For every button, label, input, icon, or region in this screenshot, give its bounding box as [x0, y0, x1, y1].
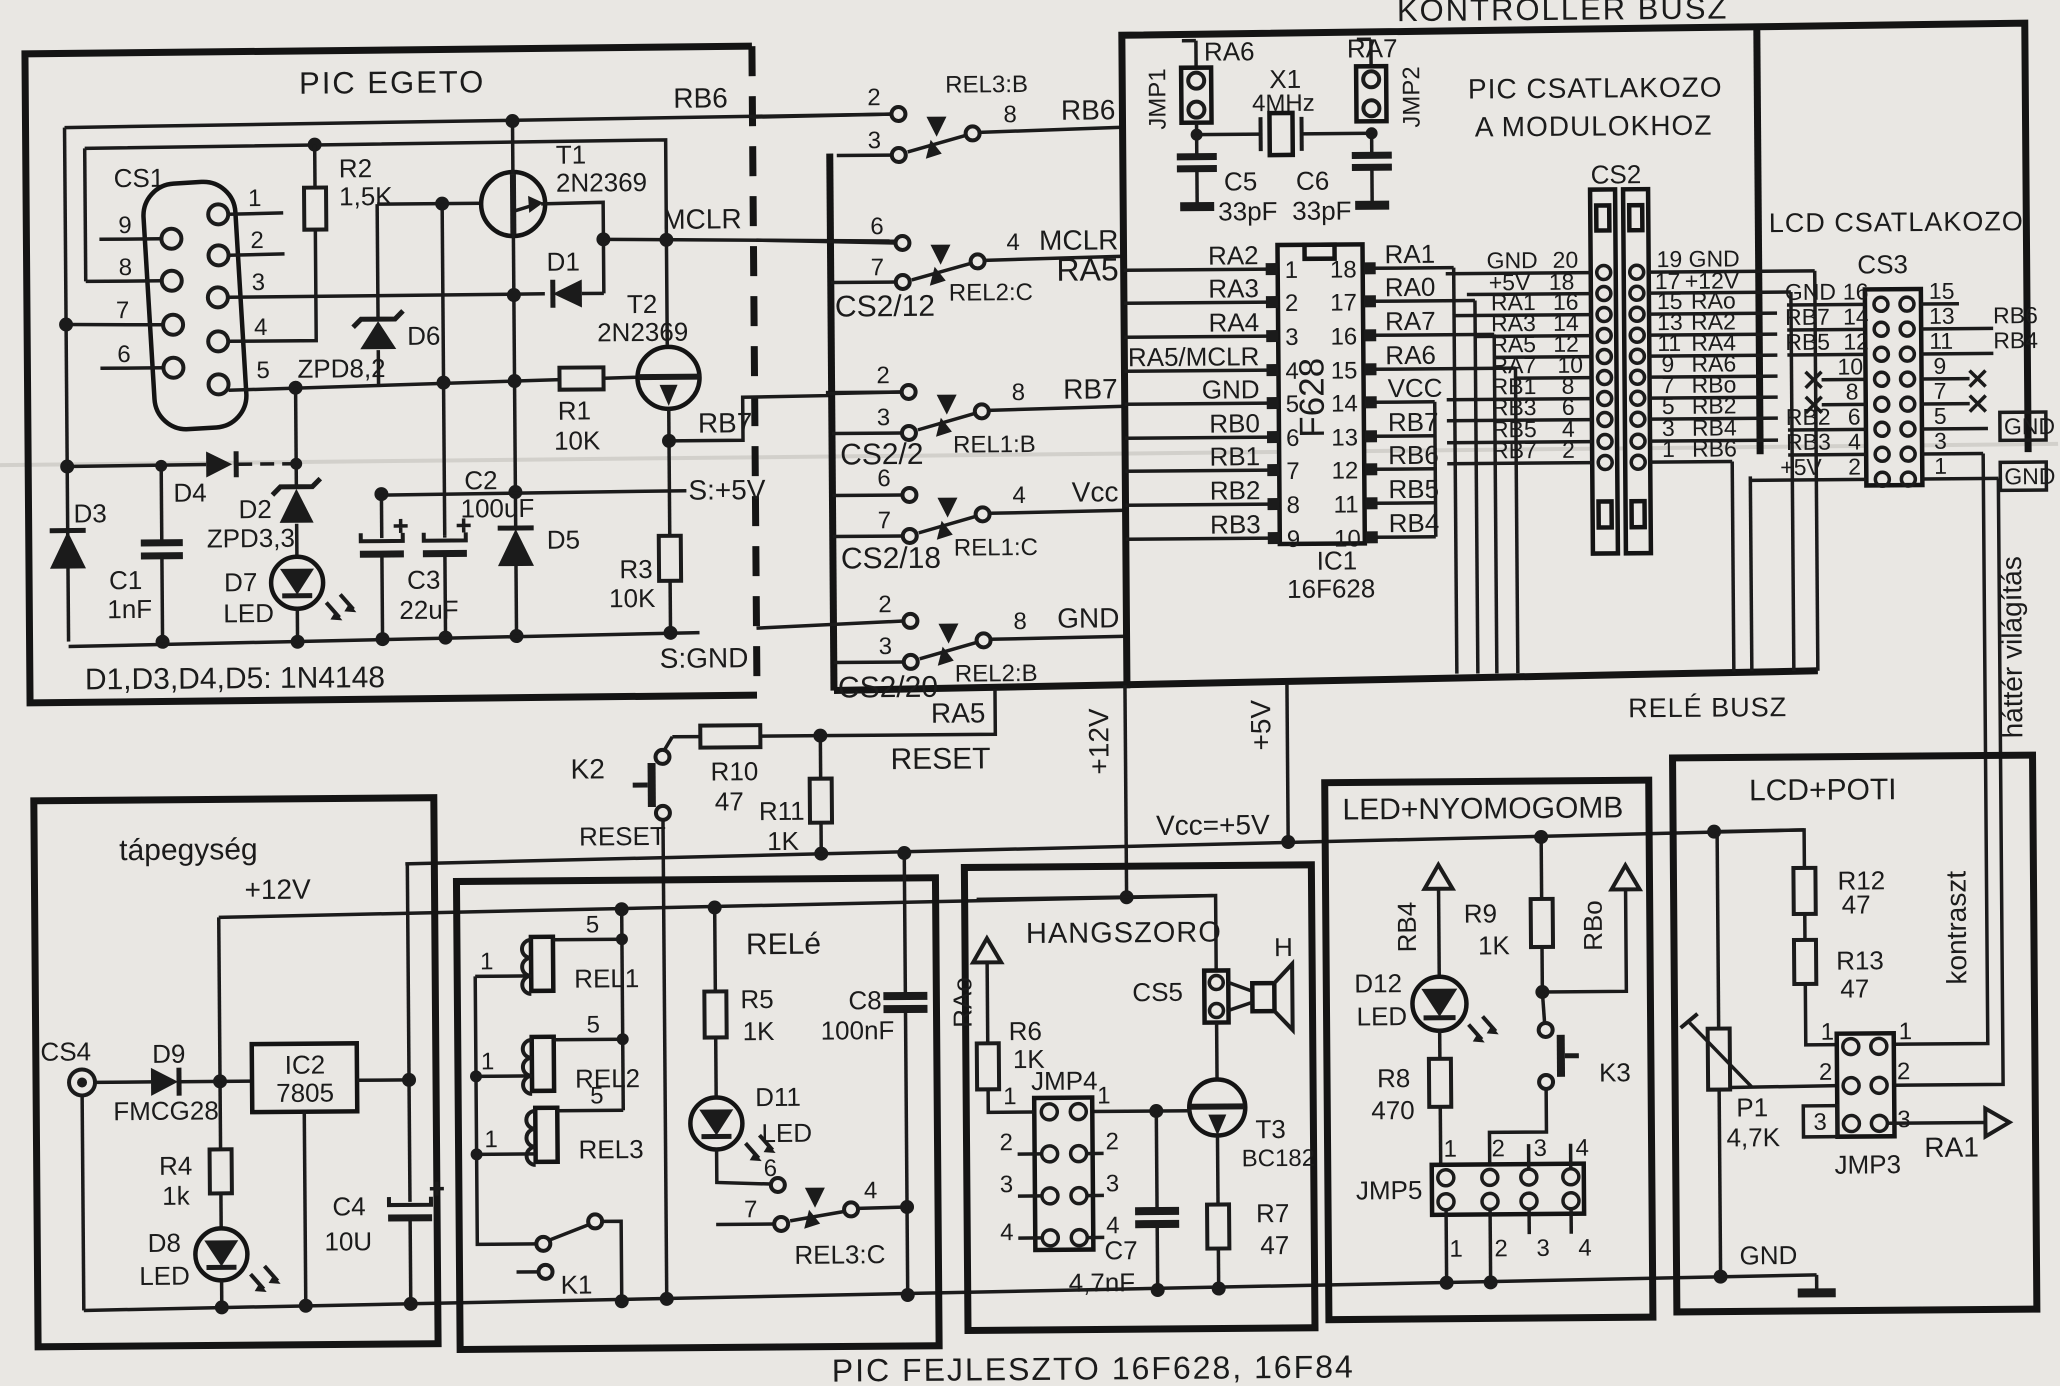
- svg-text:REL3: REL3: [578, 1134, 643, 1165]
- switch REL2:C common 4: [911, 243, 1123, 286]
- switch REL1:C contact 7: [833, 529, 917, 544]
- svg-text:3: 3: [1000, 1171, 1014, 1198]
- svg-text:3: 3: [1285, 324, 1299, 351]
- svg-text:BC182: BC182: [1242, 1145, 1316, 1173]
- IC pin 13 RB7: [1331, 407, 1439, 452]
- capacitor C7: [1134, 1111, 1179, 1297]
- label GND boxed lower: [2000, 462, 2055, 490]
- switch REL2:C contact 7: [831, 275, 910, 290]
- diode D5: [498, 528, 535, 643]
- svg-text:LED: LED: [761, 1118, 812, 1148]
- svg-text:5: 5: [586, 911, 600, 938]
- svg-text:14: 14: [1331, 390, 1358, 417]
- svg-text:LCD CSATLAKOZO: LCD CSATLAKOZO: [1769, 206, 2024, 238]
- label GND boxed upper: [2000, 412, 2055, 440]
- svg-text:1: 1: [1285, 257, 1299, 284]
- svg-text:RA5/MCLR: RA5/MCLR: [1128, 341, 1260, 372]
- svg-text:1,5K: 1,5K: [339, 181, 393, 211]
- svg-text:JMP3: JMP3: [1834, 1149, 1901, 1180]
- transistor T3: [1189, 1079, 1245, 1135]
- svg-text:3: 3: [1106, 1170, 1120, 1197]
- svg-text:8: 8: [1286, 492, 1300, 519]
- svg-text:2: 2: [1848, 453, 1861, 479]
- resistor R13: [1794, 940, 1837, 1045]
- crystal X1: [1190, 112, 1377, 155]
- svg-text:JMP2: JMP2: [1398, 66, 1425, 128]
- switch REL2:C contact 6: [756, 236, 909, 251]
- svg-text:3: 3: [1813, 1109, 1827, 1136]
- CS3 row 2/1: [1750, 452, 1998, 487]
- svg-text:16: 16: [1843, 278, 1869, 304]
- wire 7805 output: [355, 864, 417, 1202]
- svg-text:R3: R3: [619, 554, 652, 584]
- svg-text:1: 1: [1934, 453, 1947, 479]
- wire bus vertical RA1: [1454, 268, 1457, 674]
- wire JMP5 pin2 to gnd: [1483, 1209, 1498, 1289]
- svg-text:10: 10: [1837, 353, 1863, 379]
- connector CS1 pin 8: [162, 271, 182, 291]
- svg-text:8: 8: [1003, 101, 1017, 128]
- svg-text:D2: D2: [238, 494, 271, 524]
- svg-text:47: 47: [1840, 973, 1869, 1003]
- transistor T2: [637, 347, 701, 441]
- svg-text:1: 1: [1443, 1136, 1457, 1163]
- CS2 row 6/5 RB3 RB2: [1447, 392, 1778, 428]
- connector CS5: [1204, 970, 1228, 1022]
- svg-text:10U: 10U: [324, 1226, 372, 1256]
- svg-text:H: H: [1274, 932, 1293, 962]
- capacitor C5: [1177, 135, 1218, 205]
- CS3 row 6/5: [1786, 402, 1988, 437]
- svg-text:RB5: RB5: [1388, 474, 1439, 504]
- node rail entry: [1707, 825, 1721, 839]
- svg-text:12: 12: [1843, 328, 1869, 354]
- wire hatter vilagitas vertical: [1889, 478, 2003, 1085]
- CS2 row 16/15 RA1 RAo: [1454, 287, 1777, 323]
- arrow RA1: [1985, 1108, 2009, 1136]
- fold crease: [0, 444, 2058, 465]
- svg-text:RA5: RA5: [931, 697, 986, 728]
- svg-text:10K: 10K: [609, 583, 656, 613]
- svg-text:RB6: RB6: [673, 82, 728, 113]
- svg-text:R8: R8: [1377, 1063, 1410, 1093]
- wire K2 to GND: [663, 820, 667, 1299]
- CS2 row 2/1 RB7 RB6: [1447, 435, 1737, 470]
- svg-text:GND: GND: [1785, 279, 1836, 305]
- svg-text:2N2369: 2N2369: [556, 167, 647, 198]
- switch K1: [516, 1214, 629, 1309]
- svg-text:D7: D7: [224, 567, 257, 597]
- wire pin9 stub: [99, 237, 161, 241]
- svg-text:R4: R4: [159, 1151, 192, 1181]
- svg-text:RB6: RB6: [1692, 435, 1737, 461]
- svg-text:D4: D4: [173, 477, 206, 507]
- wire GND rail inside PIC EGETO: [69, 633, 700, 647]
- IC pin 8 RB2: [1125, 475, 1300, 520]
- wire pin7 to left: [66, 324, 163, 326]
- IC pin 4 RA5/MCLR: [1124, 341, 1299, 386]
- svg-text:T1: T1: [556, 139, 587, 169]
- switch REL3:B contact 3: [837, 148, 906, 163]
- capacitor C4 electrolytic: [388, 1182, 445, 1311]
- wire RB4 to D12: [1437, 889, 1441, 978]
- svg-text:RB4: RB4: [1993, 327, 2038, 353]
- CS2 row 14/13 RA3 RA2: [1475, 308, 1777, 343]
- svg-text:K2: K2: [570, 753, 604, 784]
- svg-text:5: 5: [586, 1011, 600, 1038]
- svg-text:D11: D11: [755, 1082, 801, 1112]
- svg-text:12: 12: [1331, 457, 1358, 484]
- svg-text:15: 15: [1929, 278, 1955, 304]
- svg-text:8: 8: [1013, 608, 1027, 635]
- svg-text:REL1:B: REL1:B: [953, 431, 1036, 459]
- ground C5: [1180, 202, 1214, 211]
- node MCLR junction: [596, 232, 610, 246]
- resistor R1: [559, 367, 603, 389]
- svg-text:6: 6: [1286, 425, 1300, 452]
- svg-text:RELÉ BUSZ: RELÉ BUSZ: [1628, 692, 1787, 723]
- svg-text:KONTROLLER BUSZ: KONTROLLER BUSZ: [1397, 0, 1729, 28]
- svg-text:2: 2: [1491, 1135, 1505, 1162]
- svg-text:7: 7: [116, 297, 130, 324]
- wire rail 8V2: [377, 202, 483, 206]
- svg-text:2: 2: [999, 1129, 1013, 1156]
- svg-text:K1: K1: [561, 1269, 593, 1299]
- svg-text:1: 1: [484, 1126, 498, 1153]
- svg-text:REL2:B: REL2:B: [955, 660, 1038, 688]
- switch REL1:B contact 2: [828, 385, 916, 400]
- svg-text:ZPD3,3: ZPD3,3: [207, 523, 295, 554]
- svg-text:D1: D1: [546, 247, 579, 277]
- svg-text:6: 6: [877, 465, 891, 492]
- svg-text:3: 3: [1897, 1106, 1911, 1133]
- svg-text:CS2/18: CS2/18: [841, 542, 941, 576]
- svg-text:PIC FEJLESZTO 16F628, 16F84: PIC FEJLESZTO 16F628, 16F84: [832, 1348, 1355, 1386]
- switch REL1:C contact 6: [832, 488, 916, 503]
- svg-text:4,7nF: 4,7nF: [1069, 1267, 1136, 1298]
- wire JMP5 pin1 to gnd: [1439, 1210, 1454, 1290]
- svg-text:2: 2: [876, 362, 890, 389]
- svg-text:háttér világítás: háttér világítás: [1996, 556, 2028, 738]
- switch REL1:C common 4: [918, 496, 1125, 540]
- svg-text:4: 4: [1285, 358, 1299, 385]
- svg-text:4: 4: [1575, 1135, 1589, 1162]
- svg-text:+12V: +12V: [244, 874, 311, 906]
- IC pin 5 GND: [1125, 374, 1300, 419]
- svg-text:4,7K: 4,7K: [1726, 1122, 1780, 1152]
- header JMP3: [1837, 1033, 1895, 1136]
- ground C6: [1355, 201, 1389, 210]
- svg-text:2: 2: [867, 84, 881, 111]
- svg-text:RB7: RB7: [1063, 373, 1118, 404]
- box separator PIC/LCD csatlakozo: [1757, 27, 1760, 454]
- svg-text:RELé: RELé: [746, 928, 821, 962]
- resistor R2: [304, 138, 327, 230]
- svg-text:LCD+POTI: LCD+POTI: [1749, 773, 1897, 807]
- switch REL3:C: [716, 1148, 915, 1232]
- node K2 gnd junction: [660, 1292, 674, 1306]
- IC pin 9 RB3: [1126, 509, 1301, 554]
- svg-text:GND: GND: [2004, 463, 2055, 489]
- wire bus vertical RA7: [1494, 334, 1497, 673]
- svg-text:1: 1: [481, 1048, 495, 1075]
- svg-text:11: 11: [1334, 491, 1359, 518]
- wire RA1 out: [1887, 1121, 1985, 1125]
- svg-text:1k: 1k: [162, 1181, 191, 1211]
- svg-text:+5V: +5V: [1245, 699, 1276, 750]
- wire RA5 from box: [820, 689, 995, 735]
- svg-text:RB1: RB1: [1209, 441, 1260, 471]
- svg-text:1: 1: [1449, 1236, 1463, 1263]
- svg-text:GND: GND: [1202, 374, 1260, 404]
- wire T3 base: [1091, 1104, 1191, 1119]
- wire rail RB6: [64, 114, 893, 128]
- wire GND main rail: [84, 1275, 1817, 1311]
- svg-text:RA0: RA0: [1385, 272, 1436, 302]
- connector CS1 pin 7: [163, 315, 183, 335]
- box PIC EGETO: [25, 46, 757, 703]
- svg-text:33pF: 33pF: [1218, 196, 1277, 226]
- resistor R11: [809, 736, 832, 861]
- capacitor C3 electrolytic: [359, 494, 408, 646]
- IC pin 2 RA3: [1124, 273, 1299, 318]
- svg-text:1K: 1K: [743, 1016, 776, 1046]
- svg-text:R2: R2: [339, 153, 372, 183]
- connector CS1 pin 5: [208, 374, 228, 394]
- svg-text:16: 16: [1330, 323, 1357, 350]
- svg-text:7: 7: [878, 507, 892, 534]
- resistor R5: [704, 900, 728, 1097]
- wire pin5 rail: [229, 377, 641, 390]
- svg-text:3: 3: [877, 404, 891, 431]
- svg-text:Vcc=+5V: Vcc=+5V: [1156, 809, 1270, 841]
- IC pin 1 RA2: [1123, 240, 1298, 285]
- svg-text:D12: D12: [1354, 968, 1402, 998]
- relay coil REL3: [470, 1107, 623, 1165]
- svg-text:RA6: RA6: [1204, 36, 1255, 66]
- box HANGSZORO: [964, 865, 1315, 1331]
- switch REL3:B contact 2: [752, 107, 905, 122]
- svg-text:2: 2: [878, 591, 892, 618]
- svg-text:1K: 1K: [767, 826, 800, 856]
- svg-text:VCC: VCC: [1387, 373, 1442, 403]
- jumper JMP1: [1181, 41, 1212, 123]
- wire rele coil +12V chain: [615, 902, 631, 1110]
- svg-text:22uF: 22uF: [399, 594, 458, 624]
- svg-text:1: 1: [1821, 1019, 1835, 1046]
- relay coil REL2: [470, 1033, 629, 1094]
- svg-text:CS5: CS5: [1132, 977, 1183, 1007]
- svg-text:7: 7: [1286, 458, 1300, 485]
- svg-text:D1,D3,D4,D5: 1N4148: D1,D3,D4,D5: 1N4148: [85, 661, 385, 696]
- svg-text:RA4: RA4: [1208, 307, 1259, 337]
- svg-text:GND: GND: [1739, 1240, 1797, 1270]
- CS2 row 20/19 GND: [1446, 245, 1815, 281]
- svg-text:4: 4: [1106, 1212, 1120, 1239]
- CS2 row 18/17 +5V +12V: [1467, 267, 1791, 302]
- ground symbol: [1798, 1275, 1836, 1293]
- svg-text:15: 15: [1331, 357, 1358, 384]
- svg-text:RA7: RA7: [1385, 306, 1436, 336]
- svg-text:1: 1: [1097, 1082, 1111, 1109]
- svg-text:RBo: RBo: [1578, 900, 1608, 951]
- svg-text:RB7: RB7: [1492, 437, 1537, 463]
- CS3 row 16/15: [1785, 278, 1959, 312]
- svg-text:C7: C7: [1104, 1235, 1137, 1265]
- svg-text:3: 3: [868, 127, 882, 154]
- wire C2 column top: [435, 197, 452, 536]
- IC pin 14 VCC: [1331, 373, 1443, 418]
- svg-text:10K: 10K: [554, 425, 601, 455]
- switch REL2:B contact 3: [834, 655, 918, 670]
- svg-text:RA7: RA7: [1347, 33, 1398, 63]
- CS3 row 12/11: [1785, 327, 2038, 362]
- CS2 row 8/7 RB1 RBo: [1447, 371, 1778, 407]
- svg-text:RA1: RA1: [1384, 239, 1435, 269]
- wire CS4 ground leg: [82, 1095, 84, 1310]
- svg-text:6: 6: [870, 213, 884, 240]
- svg-text:4: 4: [1578, 1235, 1592, 1262]
- arrow RA0: [973, 938, 1001, 962]
- pushbutton K3: [1538, 992, 1579, 1089]
- svg-text:4: 4: [1006, 229, 1020, 256]
- svg-text:RB7: RB7: [1785, 304, 1830, 330]
- svg-text:5: 5: [1934, 403, 1947, 429]
- svg-text:1: 1: [1662, 436, 1675, 462]
- wire pin4 to R2: [227, 230, 316, 342]
- svg-text:HANGSZORO: HANGSZORO: [1026, 917, 1222, 951]
- box RELE: [456, 878, 939, 1350]
- IC F628 body: [1277, 244, 1364, 544]
- resistor R7: [1206, 1135, 1229, 1295]
- svg-text:2N2369: 2N2369: [597, 317, 688, 348]
- svg-text:RB3: RB3: [1210, 509, 1261, 539]
- svg-text:S:GND: S:GND: [660, 642, 749, 674]
- svg-text:C6: C6: [1296, 166, 1329, 196]
- IC pin 7 RB1: [1125, 441, 1300, 486]
- wire +12V riser inside: [212, 917, 227, 1088]
- svg-text:A MODULOKHOZ: A MODULOKHOZ: [1475, 110, 1713, 143]
- svg-text:47: 47: [1260, 1230, 1289, 1260]
- transistor T1: [480, 114, 547, 528]
- svg-text:RB2: RB2: [1786, 404, 1831, 430]
- svg-text:REL1: REL1: [574, 963, 639, 994]
- svg-text:RA2: RA2: [1208, 240, 1259, 270]
- svg-text:C4: C4: [332, 1191, 365, 1221]
- svg-text:4: 4: [864, 1177, 878, 1204]
- potentiometer P1: [1679, 831, 1839, 1284]
- connector CS3 body: [1865, 289, 1923, 485]
- svg-text:3: 3: [879, 633, 893, 660]
- wire RBo branch: [1542, 889, 1627, 992]
- box LCD+POTI: [1673, 755, 2037, 1312]
- wire MCLR out: [603, 237, 897, 243]
- connector CS1 pin 2: [208, 245, 228, 265]
- svg-text:S:+5V: S:+5V: [688, 474, 766, 506]
- svg-text:100uF: 100uF: [460, 493, 534, 524]
- svg-text:1K: 1K: [1478, 930, 1511, 960]
- svg-text:R13: R13: [1836, 945, 1884, 975]
- svg-text:RESET: RESET: [579, 821, 666, 852]
- svg-text:R5: R5: [740, 984, 773, 1014]
- wire CS5 to T3: [1215, 1023, 1219, 1081]
- IC pin 11 RB5: [1333, 474, 1439, 519]
- wire coil pin1 chain: [475, 976, 536, 1244]
- IC pin 3 RA4: [1124, 307, 1299, 352]
- CS3 row 8/7 nc: [1806, 377, 1986, 412]
- svg-text:RAo: RAo: [947, 977, 977, 1028]
- node D1 line junction: [507, 288, 521, 302]
- svg-text:7805: 7805: [276, 1077, 334, 1107]
- svg-text:3: 3: [1934, 428, 1947, 454]
- svg-text:R9: R9: [1464, 898, 1497, 928]
- wire bus vertical right a: [1791, 292, 1794, 671]
- switch REL1:B common 8: [918, 393, 1125, 437]
- svg-text:T2: T2: [627, 289, 658, 319]
- svg-text:RA3: RA3: [1208, 273, 1259, 303]
- svg-text:RB2: RB2: [1210, 475, 1261, 505]
- diode D1: [553, 279, 604, 307]
- wire +12V to CS5: [977, 890, 1217, 973]
- svg-text:PIC CSATLAKOZO: PIC CSATLAKOZO: [1468, 72, 1723, 105]
- wire D4 line: [60, 458, 296, 474]
- wire kontraszt vertical: [1889, 454, 1988, 1045]
- svg-text:FMCG28: FMCG28: [113, 1095, 219, 1126]
- IC pin 17 RA0: [1330, 271, 1475, 316]
- wire bus vertical CS3 +5V: [1750, 476, 1752, 671]
- resistor R9: [1530, 830, 1553, 999]
- svg-text:2: 2: [1285, 290, 1299, 317]
- svg-text:RB3: RB3: [1786, 429, 1831, 455]
- svg-text:RB4: RB4: [1392, 902, 1422, 953]
- jumper JMP2: [1356, 39, 1387, 121]
- svg-text:REL3:B: REL3:B: [945, 71, 1028, 99]
- svg-text:47: 47: [1842, 889, 1871, 919]
- svg-text:C8: C8: [848, 985, 881, 1015]
- svg-text:8: 8: [119, 254, 133, 281]
- svg-text:RB0: RB0: [1209, 408, 1260, 438]
- wire left vertical: [65, 128, 69, 642]
- svg-text:470: 470: [1371, 1095, 1415, 1125]
- switch REL3:B common 8: [907, 115, 1122, 159]
- svg-text:4: 4: [1012, 482, 1026, 509]
- CS2 row 12/11 RA5 RA4: [1491, 329, 1777, 364]
- resistor R3: [658, 441, 682, 640]
- pushbutton K2: [632, 750, 670, 820]
- connector CS1 pin 4: [208, 331, 228, 351]
- wire pin2 stub: [229, 254, 285, 255]
- svg-text:Vcc: Vcc: [1072, 476, 1119, 507]
- zener D6: [352, 204, 403, 385]
- svg-text:R6: R6: [1009, 1016, 1042, 1046]
- box LED+NYOMOGOMB: [1325, 780, 1653, 1320]
- LED D12: [1412, 976, 1499, 1043]
- svg-text:RB6: RB6: [1993, 302, 2038, 328]
- svg-text:D3: D3: [73, 498, 106, 528]
- IC pin 10 RB4: [1334, 508, 1440, 553]
- svg-text:1nF: 1nF: [107, 594, 152, 624]
- svg-text:6: 6: [1848, 403, 1861, 429]
- svg-text:RA6: RA6: [1385, 340, 1436, 370]
- svg-text:1: 1: [248, 185, 262, 212]
- svg-text:3: 3: [252, 269, 266, 296]
- svg-text:D5: D5: [547, 525, 580, 555]
- svg-text:RA1: RA1: [1924, 1132, 1979, 1163]
- wire +12V riser: [1125, 685, 1127, 897]
- wire pin1 stub: [228, 213, 283, 214]
- svg-text:8: 8: [1012, 379, 1026, 406]
- svg-text:13: 13: [1929, 303, 1955, 329]
